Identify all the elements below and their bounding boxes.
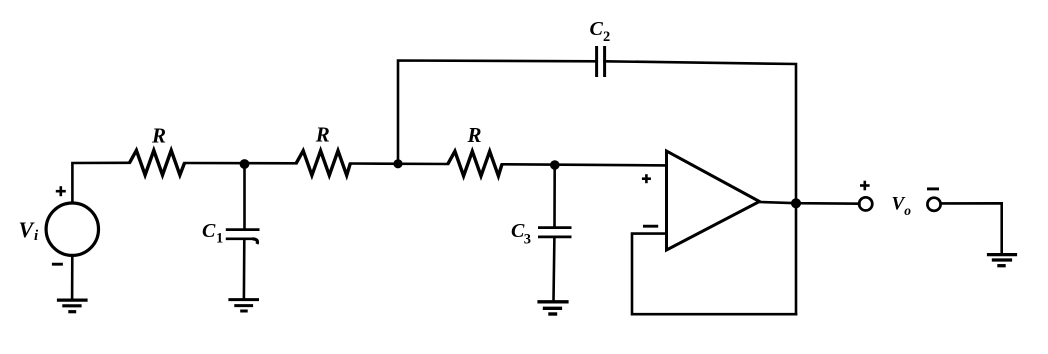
- svg-text:R: R: [315, 123, 330, 147]
- svg-text:3: 3: [524, 232, 531, 248]
- svg-text:R: R: [151, 123, 166, 147]
- svg-text:C: C: [590, 18, 604, 40]
- svg-text:o: o: [904, 203, 911, 218]
- svg-text:2: 2: [603, 29, 610, 45]
- svg-text:i: i: [34, 228, 39, 244]
- svg-text:R: R: [467, 123, 482, 147]
- svg-text:V: V: [19, 217, 36, 242]
- svg-text:1: 1: [216, 230, 223, 246]
- svg-text:C: C: [202, 220, 216, 242]
